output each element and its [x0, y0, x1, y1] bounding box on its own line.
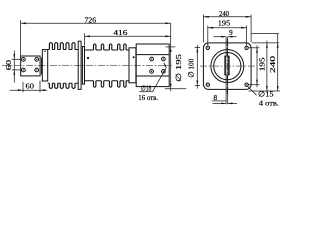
svg-text:4 отв.: 4 отв. [259, 98, 279, 107]
leader dia15 [247, 86, 257, 96]
shed group 1 core lines [48, 49, 78, 51]
block hole 4 [35, 68, 39, 72]
long bottom tick [249, 90, 280, 92]
text left view [4, 16, 183, 103]
leader dia18 [139, 91, 152, 93]
outer circle [211, 50, 244, 83]
svg-text:16 отв.: 16 отв. [138, 93, 158, 102]
dim 726 [21, 22, 171, 24]
extra right dim line [277, 34, 279, 91]
svg-text:∅ 100: ∅ 100 [186, 59, 195, 78]
svg-text:240: 240 [268, 56, 277, 73]
rivet dots [44, 51, 45, 52]
svg-text:∅ 195: ∅ 195 [174, 54, 183, 82]
spacer plate [41, 58, 43, 75]
shed 2 [55, 43, 58, 89]
svg-text:9: 9 [229, 29, 233, 37]
v60 dim [13, 51, 15, 83]
svg-text:195: 195 [258, 57, 267, 71]
dim 240 top [203, 16, 251, 18]
cylinder top/bottom [85, 49, 130, 51]
dim 195 top [208, 27, 247, 29]
dim 240 right [266, 41, 268, 92]
dim 8 bottom [213, 102, 227, 104]
central flange disc [78, 41, 81, 89]
corner hole 1 [206, 46, 209, 49]
svg-text:240: 240 [219, 9, 229, 18]
svg-text:195: 195 [218, 19, 231, 28]
text right view [186, 9, 279, 107]
flange plate side view [136, 44, 169, 87]
dim 416 [85, 35, 171, 37]
corner hole 4 [245, 83, 248, 86]
h60 dim [10, 89, 48, 91]
plate hole 4 [162, 70, 166, 74]
group2 shed 1 [101, 44, 103, 87]
dimensions right view [195, 15, 280, 105]
inner circle [214, 53, 241, 80]
block hole 2 [35, 58, 39, 62]
block hole 1 [22, 58, 26, 62]
arrowheads left view [13, 22, 171, 91]
block hole 3 [22, 68, 26, 72]
corner hole dots [207, 47, 247, 85]
shed 1 [49, 43, 52, 89]
corner hole 3 [206, 83, 209, 86]
terminal block [21, 56, 40, 76]
tick dia195 top [166, 46, 176, 48]
slot bars [224, 56, 226, 75]
centerlines right view [200, 39, 256, 94]
square flange [203, 43, 251, 90]
svg-text:8: 8 [214, 94, 218, 102]
group2 shed 0 [94, 44, 96, 87]
svg-text:∅18: ∅18 [141, 84, 152, 92]
svg-text:60: 60 [26, 81, 35, 90]
svg-text:726: 726 [85, 16, 97, 25]
corner hole 2 [245, 46, 248, 49]
svg-text:∅15: ∅15 [258, 89, 274, 98]
shed 5 [72, 43, 75, 89]
shared right vertical ext / dia195 dim line [170, 23, 172, 91]
group2 shed 3 [118, 44, 120, 87]
hub step [129, 48, 136, 83]
svg-text:416: 416 [113, 28, 127, 37]
plate hole 1 [150, 57, 154, 61]
tick dia195 bottom [165, 88, 187, 90]
plate hole 2 [162, 57, 166, 61]
group2 shed 4 [124, 44, 126, 87]
arrowheads right view [196, 16, 278, 104]
dim 9 [214, 36, 227, 38]
end cap [42, 50, 47, 81]
group2 shed 2 [109, 44, 111, 87]
dim 195 right [256, 45, 258, 87]
centerline left view [2, 64, 172, 66]
collar [82, 47, 84, 85]
hole center dots [23, 51, 164, 72]
shed 3 [60, 43, 63, 89]
plate hole 3 [150, 70, 154, 74]
dim dia100 left [196, 45, 198, 89]
svg-text:60: 60 [4, 60, 13, 71]
shed 4 [66, 43, 69, 89]
